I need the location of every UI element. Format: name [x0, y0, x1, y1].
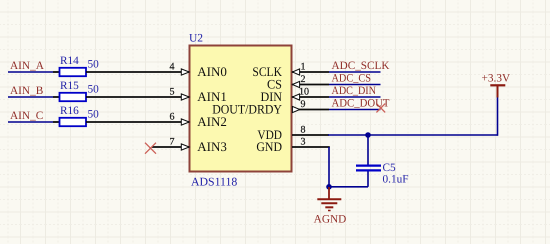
svg-text:0.1uF: 0.1uF	[383, 174, 409, 186]
svg-text:50: 50	[88, 108, 100, 120]
svg-text:50: 50	[88, 58, 100, 70]
svg-text:ADC_DOUT: ADC_DOUT	[332, 97, 390, 109]
svg-text:U2: U2	[189, 33, 203, 45]
svg-text:5: 5	[170, 86, 175, 97]
svg-text:6: 6	[170, 111, 175, 122]
svg-text:9: 9	[301, 99, 306, 110]
svg-text:3: 3	[301, 136, 306, 147]
svg-text:GND: GND	[256, 139, 282, 154]
svg-text:50: 50	[88, 83, 100, 95]
svg-text:R16: R16	[60, 105, 79, 117]
svg-text:AGND: AGND	[314, 214, 347, 226]
svg-text:10: 10	[299, 86, 309, 97]
svg-text:C5: C5	[383, 162, 397, 174]
svg-text:1: 1	[301, 61, 306, 72]
svg-text:8: 8	[301, 124, 306, 135]
svg-text:ADC_DIN: ADC_DIN	[332, 85, 377, 97]
svg-text:2: 2	[301, 74, 306, 85]
svg-text:7: 7	[170, 136, 175, 147]
svg-text:AIN0: AIN0	[197, 64, 227, 79]
svg-text:AIN_A: AIN_A	[10, 60, 45, 72]
svg-text:+3.3V: +3.3V	[482, 73, 511, 85]
svg-text:AIN_B: AIN_B	[10, 85, 43, 97]
svg-text:R15: R15	[60, 80, 79, 92]
svg-text:ADC_SCLK: ADC_SCLK	[332, 60, 391, 72]
svg-text:ADC_CS: ADC_CS	[332, 72, 372, 84]
svg-text:DOUT/DRDY: DOUT/DRDY	[212, 102, 282, 117]
svg-text:AIN_C: AIN_C	[10, 110, 43, 122]
svg-text:R14: R14	[60, 55, 79, 67]
svg-text:4: 4	[170, 61, 175, 72]
svg-text:ADS1118: ADS1118	[191, 175, 237, 189]
svg-text:AIN3: AIN3	[197, 139, 227, 154]
